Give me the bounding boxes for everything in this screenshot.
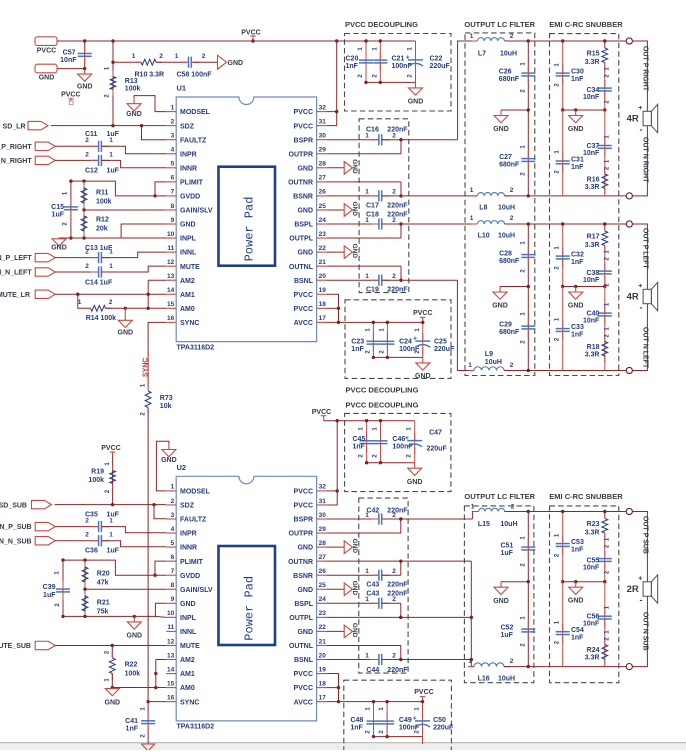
svg-text:4R: 4R bbox=[627, 292, 639, 303]
svg-text:26: 26 bbox=[319, 189, 327, 196]
wire to speaker left - bbox=[632, 304, 647, 371]
svg-text:2: 2 bbox=[392, 596, 396, 603]
svg-text:C21: C21 bbox=[392, 56, 405, 63]
wire to speaker right - bbox=[632, 126, 647, 196]
svg-text:PVCC: PVCC bbox=[101, 445, 120, 452]
svg-text:C48: C48 bbox=[350, 717, 363, 724]
capacitor C27 680nF bbox=[527, 110, 529, 196]
svg-text:3: 3 bbox=[171, 133, 175, 140]
capacitor C19 220nF bbox=[327, 279, 379, 281]
svg-text:2: 2 bbox=[392, 189, 396, 196]
svg-text:3.3R: 3.3R bbox=[585, 352, 600, 359]
svg-text:C28: C28 bbox=[499, 251, 512, 258]
capacitor C56 bbox=[604, 582, 606, 667]
wire U2 LC gnd rail bbox=[501, 581, 528, 583]
svg-text:18: 18 bbox=[319, 680, 327, 687]
inductor L15 10uH bbox=[473, 511, 511, 513]
svg-text:16: 16 bbox=[167, 315, 175, 322]
wire rail down to U2 PVCC pins bbox=[327, 421, 338, 505]
svg-text:PVCC: PVCC bbox=[294, 671, 313, 678]
svg-text:L15: L15 bbox=[478, 521, 490, 528]
ground snubber bbox=[569, 287, 583, 300]
svg-text:BSPL: BSPL bbox=[294, 601, 313, 608]
svg-text:1uF: 1uF bbox=[107, 548, 120, 555]
svg-text:C25: C25 bbox=[434, 339, 447, 346]
svg-text:GVDD: GVDD bbox=[180, 573, 200, 580]
U2 pin 21 OUTNL bbox=[317, 644, 327, 646]
svg-text:PVCC DECOUPLING: PVCC DECOUPLING bbox=[346, 401, 419, 410]
svg-text:PVCC DECOUPLING: PVCC DECOUPLING bbox=[346, 386, 419, 395]
svg-text:1nF: 1nF bbox=[353, 444, 366, 451]
svg-text:-: - bbox=[640, 302, 643, 312]
svg-text:680nF: 680nF bbox=[499, 162, 520, 169]
svg-text:100nF: 100nF bbox=[392, 63, 413, 70]
svg-text:10uH: 10uH bbox=[498, 205, 515, 212]
svg-text:31: 31 bbox=[319, 498, 327, 505]
svg-text:L7: L7 bbox=[478, 51, 486, 58]
svg-text:SYNC: SYNC bbox=[180, 320, 199, 327]
svg-text:C45: C45 bbox=[353, 436, 366, 443]
capacitor C36 1uF bbox=[55, 540, 98, 542]
svg-text:29: 29 bbox=[319, 147, 327, 154]
svg-text:MUTE: MUTE bbox=[180, 264, 200, 271]
U1 pin 3 FAULTZ bbox=[166, 139, 176, 141]
U1 pin 7 GVDD bbox=[166, 195, 176, 197]
svg-text:31: 31 bbox=[319, 118, 327, 125]
U2 pin 11 INNL bbox=[166, 630, 176, 632]
resistor R13 100k bbox=[112, 41, 114, 126]
U1 pin 9 GND bbox=[166, 223, 176, 225]
svg-text:1: 1 bbox=[171, 104, 175, 111]
wire GVDD row bbox=[71, 181, 166, 196]
ground arrow pin28 U1 bbox=[327, 167, 345, 169]
svg-text:10uH: 10uH bbox=[485, 359, 502, 366]
capacitor C43 220nF first bbox=[327, 574, 379, 576]
resistor R17 bbox=[604, 224, 606, 231]
ground decoupling box 1 bbox=[409, 82, 423, 95]
wire GVDD U2 row bbox=[63, 560, 166, 575]
svg-text:OUT P SUB: OUT P SUB bbox=[642, 516, 649, 554]
U1 pin 12 MUTE bbox=[166, 265, 176, 267]
svg-text:1: 1 bbox=[365, 133, 369, 140]
svg-text:1: 1 bbox=[109, 532, 113, 539]
svg-text:23: 23 bbox=[319, 231, 327, 238]
wire SD_LR to SDZ/FAULTZ bbox=[51, 125, 167, 127]
wire to sub speaker + bbox=[632, 512, 647, 582]
svg-text:AM0: AM0 bbox=[180, 685, 195, 692]
svg-text:1: 1 bbox=[470, 187, 474, 194]
terminal OUT N RIGHT bbox=[626, 193, 632, 199]
svg-text:C41: C41 bbox=[125, 718, 138, 725]
IC U2 TPA3116D2 body bbox=[176, 476, 316, 721]
resistor R16 bbox=[604, 168, 606, 195]
svg-text:100k: 100k bbox=[88, 477, 104, 484]
svg-text:8: 8 bbox=[171, 582, 175, 589]
wire PVCC rail to chip PVCC pins bbox=[327, 41, 337, 126]
svg-text:INPR: INPR bbox=[180, 151, 197, 158]
svg-text:1nF: 1nF bbox=[571, 164, 584, 171]
svg-text:10nF: 10nF bbox=[583, 318, 600, 325]
svg-text:C42: C42 bbox=[366, 507, 379, 514]
svg-text:R14 100k: R14 100k bbox=[86, 315, 116, 322]
capacitor C23 1nF bbox=[372, 322, 374, 357]
svg-text:SYNC: SYNC bbox=[180, 699, 199, 706]
svg-text:R18: R18 bbox=[587, 344, 600, 351]
svg-text:BSNL: BSNL bbox=[294, 278, 314, 285]
wire bottom node U2 to INPL/GND pin bbox=[63, 603, 166, 616]
svg-text:1: 1 bbox=[109, 151, 113, 158]
svg-text:C51: C51 bbox=[501, 543, 514, 550]
U1 pin 29 OUTPR bbox=[317, 153, 327, 155]
svg-text:R10 3.3R: R10 3.3R bbox=[135, 72, 165, 79]
svg-text:C46: C46 bbox=[392, 436, 405, 443]
svg-text:GND: GND bbox=[127, 633, 143, 640]
capacitor C42 220nF bbox=[327, 518, 379, 520]
svg-text:1: 1 bbox=[470, 215, 474, 222]
capacitor C34 bbox=[604, 80, 606, 99]
svg-text:C20: C20 bbox=[346, 56, 359, 63]
U1 pin 14 AM1 bbox=[166, 293, 176, 295]
svg-text:R19: R19 bbox=[91, 469, 104, 476]
U1 pin 13 AM2 bbox=[166, 279, 176, 281]
svg-text:L8: L8 bbox=[479, 205, 487, 212]
svg-text:AM2: AM2 bbox=[180, 278, 195, 285]
svg-text:OUT N SUB: OUT N SUB bbox=[642, 612, 649, 651]
capacitor C20 1nF bbox=[365, 41, 367, 82]
svg-text:C17: C17 bbox=[366, 203, 379, 210]
svg-text:PVCC: PVCC bbox=[294, 489, 313, 496]
capacitor C30 bbox=[562, 41, 564, 110]
U1 pin 23 OUTPL bbox=[317, 237, 327, 239]
wire BSPR node up to L7 bbox=[458, 41, 478, 140]
svg-text:GND: GND bbox=[568, 303, 584, 310]
svg-text:C29: C29 bbox=[499, 322, 512, 329]
svg-text:FAULTZ: FAULTZ bbox=[180, 517, 207, 524]
svg-text:10uH: 10uH bbox=[500, 521, 517, 528]
resistor R19 100k bbox=[112, 452, 114, 505]
svg-text:2: 2 bbox=[85, 532, 89, 539]
ground below C57 bbox=[78, 69, 92, 82]
capacitor C58 100nF bbox=[180, 61, 199, 63]
svg-text:1uF: 1uF bbox=[52, 212, 65, 219]
U1 pin 22 GND bbox=[317, 251, 327, 253]
svg-text:1: 1 bbox=[175, 53, 179, 60]
svg-text:MODSEL: MODSEL bbox=[180, 109, 211, 116]
U2 pin 7 GVDD bbox=[166, 574, 176, 576]
svg-text:EMI C-RC SNUBBER: EMI C-RC SNUBBER bbox=[549, 492, 623, 501]
svg-text:AM1: AM1 bbox=[180, 292, 195, 299]
svg-text:680nF: 680nF bbox=[499, 258, 520, 265]
svg-text:GND: GND bbox=[351, 201, 358, 216]
svg-text:GAIN/SLV: GAIN/SLV bbox=[180, 587, 213, 594]
svg-text:C24: C24 bbox=[399, 339, 412, 346]
svg-text:4R: 4R bbox=[627, 114, 639, 125]
svg-text:C49: C49 bbox=[399, 717, 412, 724]
svg-text:C50: C50 bbox=[433, 717, 446, 724]
svg-text:22: 22 bbox=[319, 245, 327, 252]
svg-text:2: 2 bbox=[510, 33, 514, 40]
svg-text:N_N_LEFT: N_N_LEFT bbox=[0, 270, 32, 277]
svg-text:220nF: 220nF bbox=[387, 507, 408, 514]
svg-text:OUTPR: OUTPR bbox=[289, 531, 314, 538]
resistor R12 20k bbox=[83, 210, 85, 238]
wire SD_SUB to SDZ/FAULTZ bbox=[55, 504, 167, 506]
U2 pin 9 GND bbox=[166, 602, 176, 604]
svg-text:C40: C40 bbox=[586, 311, 599, 318]
svg-text:PVCC: PVCC bbox=[294, 109, 313, 116]
wire U2 PVCC/AVCC pins 19-17 bbox=[327, 674, 339, 702]
svg-text:19: 19 bbox=[319, 666, 327, 673]
power pad U2 bbox=[219, 546, 276, 645]
svg-text:15: 15 bbox=[167, 301, 175, 308]
svg-text:C36: C36 bbox=[85, 548, 98, 555]
capacitor C11 1uF bbox=[55, 145, 98, 147]
svg-text:15: 15 bbox=[167, 680, 175, 687]
svg-text:2: 2 bbox=[85, 151, 89, 158]
svg-text:3.3R: 3.3R bbox=[585, 530, 600, 537]
svg-text:GND: GND bbox=[105, 700, 121, 707]
ground left of C15 bbox=[52, 238, 66, 246]
svg-text:3: 3 bbox=[171, 512, 175, 519]
svg-text:GND: GND bbox=[351, 539, 358, 554]
svg-text:C19: C19 bbox=[366, 287, 379, 294]
svg-text:-: - bbox=[640, 595, 643, 605]
svg-text:Power Pad: Power Pad bbox=[243, 576, 257, 641]
svg-text:GND: GND bbox=[297, 587, 313, 594]
U2 pin 25 GND bbox=[317, 588, 327, 590]
svg-text:17: 17 bbox=[319, 694, 327, 701]
ground arrow pin25 U1 bbox=[327, 209, 345, 211]
U2 pin 24 BSPL bbox=[317, 602, 327, 604]
svg-text:OUTPL: OUTPL bbox=[289, 236, 313, 243]
capacitor C38 bbox=[604, 263, 606, 282]
svg-text:1nF: 1nF bbox=[571, 332, 584, 339]
capacitor C14 1uF bbox=[55, 271, 98, 273]
capacitor C52 1uF bbox=[527, 582, 529, 667]
svg-text:N_N_SUB: N_N_SUB bbox=[0, 538, 32, 545]
svg-text:GND: GND bbox=[351, 159, 358, 174]
inductor L10 10uH bbox=[465, 223, 478, 225]
svg-text:AVCC: AVCC bbox=[294, 699, 313, 706]
terminal OUT N LEFT bbox=[626, 367, 632, 373]
U1 pin 16 SYNC bbox=[166, 321, 176, 323]
U1 pin 10 INPL bbox=[166, 237, 176, 239]
svg-text:INPL: INPL bbox=[180, 615, 197, 622]
svg-text:C27: C27 bbox=[499, 154, 512, 161]
wire PLIMIT U2 to GVDD tie bbox=[155, 561, 166, 575]
svg-text:MUTE_LR: MUTE_LR bbox=[0, 292, 30, 299]
svg-text:16: 16 bbox=[167, 694, 175, 701]
capacitor C22 220uF polarized bbox=[415, 41, 417, 82]
svg-text:OUTPUT LC FILTER: OUTPUT LC FILTER bbox=[464, 20, 535, 29]
svg-text:PVCC: PVCC bbox=[294, 503, 313, 510]
svg-text:9: 9 bbox=[171, 596, 175, 603]
resistor R20 47k bbox=[84, 560, 86, 589]
svg-text:220nF: 220nF bbox=[387, 203, 408, 210]
svg-text:INNL: INNL bbox=[180, 250, 197, 257]
svg-text:TPA3116D2: TPA3116D2 bbox=[177, 724, 215, 731]
terminal OUT N SUB bbox=[626, 664, 632, 670]
svg-text:220uF: 220uF bbox=[427, 446, 448, 453]
resistor R18 bbox=[604, 336, 606, 363]
ground stub below C50 bbox=[422, 737, 424, 744]
svg-text:GND: GND bbox=[228, 60, 244, 67]
svg-text:2: 2 bbox=[159, 53, 163, 60]
svg-text:2: 2 bbox=[85, 518, 89, 525]
svg-text:OUTPUT LC FILTER: OUTPUT LC FILTER bbox=[464, 492, 535, 501]
svg-text:11: 11 bbox=[167, 245, 174, 252]
svg-text:2R: 2R bbox=[627, 584, 639, 595]
svg-text:30: 30 bbox=[319, 133, 327, 140]
svg-text:32: 32 bbox=[319, 484, 327, 491]
svg-text:680nF: 680nF bbox=[499, 329, 520, 336]
svg-text:2: 2 bbox=[85, 137, 89, 144]
svg-text:5: 5 bbox=[171, 540, 175, 547]
U1 pin 5 INNR bbox=[166, 167, 176, 169]
svg-text:27: 27 bbox=[319, 175, 327, 182]
svg-text:C22: C22 bbox=[430, 56, 443, 63]
svg-text:C33: C33 bbox=[571, 324, 584, 331]
svg-text:1nF: 1nF bbox=[571, 76, 584, 83]
U2 pin 1 MODSEL bbox=[166, 490, 176, 492]
svg-text:10nF: 10nF bbox=[583, 94, 600, 101]
svg-text:13: 13 bbox=[167, 273, 175, 280]
U1 pin 2 SDZ bbox=[166, 125, 176, 127]
svg-text:OUTPR: OUTPR bbox=[289, 151, 314, 158]
svg-text:1nF: 1nF bbox=[571, 635, 584, 642]
ground LC filter bottom bbox=[493, 287, 507, 300]
svg-text:1uF: 1uF bbox=[501, 550, 514, 557]
svg-text:TPA3116D2: TPA3116D2 bbox=[177, 344, 215, 351]
svg-text:C13 1uF: C13 1uF bbox=[85, 245, 113, 252]
svg-text:18: 18 bbox=[319, 301, 327, 308]
svg-text:C39: C39 bbox=[43, 584, 56, 591]
svg-text:R15: R15 bbox=[587, 51, 600, 58]
svg-text:1: 1 bbox=[470, 33, 474, 40]
wire snubber gnd rail bbox=[563, 581, 605, 583]
ground arrow pin22 U2 bbox=[327, 630, 345, 632]
svg-text:BSNL: BSNL bbox=[294, 657, 314, 664]
svg-text:1nF: 1nF bbox=[350, 724, 363, 731]
svg-text:GND: GND bbox=[351, 244, 358, 259]
svg-text:BSPR: BSPR bbox=[294, 517, 313, 524]
svg-text:OUTNL: OUTNL bbox=[289, 264, 314, 271]
connector J PVCC bbox=[35, 37, 57, 46]
svg-text:C26: C26 bbox=[499, 69, 512, 76]
svg-text:R21: R21 bbox=[97, 600, 110, 607]
svg-text:C57: C57 bbox=[63, 49, 76, 56]
svg-text:1nF: 1nF bbox=[571, 259, 584, 266]
capacitor C37 bbox=[604, 110, 606, 196]
terminal OUT P LEFT bbox=[626, 221, 632, 227]
U2 pin 27 OUTNR bbox=[317, 560, 327, 562]
svg-text:20: 20 bbox=[319, 273, 327, 280]
U2 pin 16 SYNC bbox=[166, 701, 176, 703]
svg-text:1uF: 1uF bbox=[43, 592, 56, 599]
svg-text:+: + bbox=[638, 576, 642, 583]
svg-text:C11: C11 bbox=[85, 131, 98, 138]
capacitor C13 1uF bbox=[55, 257, 98, 259]
svg-text:C18: C18 bbox=[366, 212, 379, 219]
inductor L7 10uH bbox=[472, 40, 511, 42]
capacitor C40 bbox=[604, 287, 606, 371]
capacitor C28 680nF bbox=[527, 224, 529, 287]
svg-text:C15: C15 bbox=[51, 204, 64, 211]
svg-text:2: 2 bbox=[109, 299, 113, 306]
ground below C41 clipped bbox=[142, 744, 155, 751]
resistor R14 100k bbox=[78, 294, 91, 308]
svg-text:PVCC: PVCC bbox=[61, 92, 80, 99]
U1 pin 25 GND bbox=[317, 209, 327, 211]
capacitor C51 1uF bbox=[527, 512, 529, 582]
svg-text:2: 2 bbox=[392, 568, 396, 575]
svg-text:MUTE: MUTE bbox=[180, 643, 200, 650]
svg-text:AM0: AM0 bbox=[180, 306, 195, 313]
U1 pin 32 PVCC bbox=[317, 111, 327, 113]
svg-text:1uF: 1uF bbox=[107, 131, 120, 138]
svg-text:C56: C56 bbox=[586, 614, 599, 621]
svg-text:INPL: INPL bbox=[180, 236, 197, 243]
svg-text:1: 1 bbox=[132, 53, 136, 60]
wire PVCC top rail bbox=[57, 40, 416, 42]
capacitor C29 680nF bbox=[527, 287, 529, 371]
capacitor C45 1nF bbox=[366, 421, 368, 463]
svg-text:OUTNR: OUTNR bbox=[288, 559, 313, 566]
wire GAIN/SLV row bbox=[84, 209, 166, 211]
svg-text:1nF: 1nF bbox=[351, 346, 364, 353]
wire bottom node to INPL/GND pin bbox=[59, 224, 166, 238]
capacitor C48 1nF bbox=[373, 702, 375, 737]
svg-text:AVCC: AVCC bbox=[294, 320, 313, 327]
svg-text:4: 4 bbox=[171, 526, 175, 533]
svg-text:10nF: 10nF bbox=[583, 277, 600, 284]
resistor R10 3.3R bbox=[113, 61, 141, 63]
svg-text:OUT P RIGHT: OUT P RIGHT bbox=[642, 46, 649, 92]
U2 pin 23 OUTPL bbox=[317, 616, 327, 618]
svg-text:GND: GND bbox=[180, 601, 196, 608]
capacitor C32 bbox=[562, 224, 564, 287]
svg-text:PVCC: PVCC bbox=[294, 292, 313, 299]
svg-text:10uH: 10uH bbox=[498, 676, 515, 683]
wire decoupling bottom rail bbox=[366, 81, 416, 83]
svg-text:OUT N RIGHT: OUT N RIGHT bbox=[642, 137, 649, 183]
bottom window edge strip bbox=[0, 742, 686, 743]
svg-text:C43: C43 bbox=[366, 582, 379, 589]
wire box2 bottom rail bbox=[373, 356, 422, 358]
ground box2 bbox=[416, 357, 430, 370]
wire to sub speaker - bbox=[632, 596, 647, 667]
svg-text:1: 1 bbox=[365, 596, 369, 603]
U1 pin 1 MODSEL bbox=[166, 111, 176, 113]
svg-text:1: 1 bbox=[109, 518, 113, 525]
svg-text:GND: GND bbox=[77, 84, 93, 91]
svg-text:GND: GND bbox=[161, 457, 177, 464]
svg-text:32: 32 bbox=[319, 104, 327, 111]
U1 pin 19 PVCC bbox=[317, 293, 327, 295]
svg-text:GND: GND bbox=[351, 623, 358, 638]
svg-text:2: 2 bbox=[392, 652, 396, 659]
svg-text:10k: 10k bbox=[160, 403, 172, 410]
svg-text:2: 2 bbox=[171, 498, 175, 505]
svg-text:3.3R: 3.3R bbox=[585, 184, 600, 191]
wire BSNL node down to L9 bbox=[457, 280, 474, 370]
svg-text:24: 24 bbox=[319, 217, 327, 224]
svg-text:PVCC DECOUPLING: PVCC DECOUPLING bbox=[345, 20, 418, 29]
svg-text:GND: GND bbox=[351, 581, 358, 596]
svg-text:GND: GND bbox=[39, 75, 55, 82]
svg-text:AM2: AM2 bbox=[180, 657, 195, 664]
speaker 4R left bbox=[643, 282, 658, 310]
